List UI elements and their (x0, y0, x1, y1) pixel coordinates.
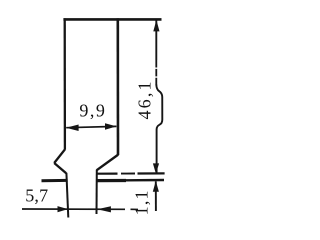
svg-text:46,1: 46,1 (134, 79, 154, 119)
dimension line 5,7 (horizontal at bottom) (22, 208, 125, 210)
dimension line 46,1 (vertical right, with jog) (155, 21, 157, 61)
part outline: left edge of body (64, 18, 67, 150)
arrowhead 9,9 left (points left at body left edge) (66, 125, 79, 132)
arrowhead 5,7 left (points right at stem left edge) (58, 206, 69, 212)
part outline: right edge of body (117, 18, 120, 155)
part outline: top edge with right extension line (63, 18, 161, 21)
part outline: stem right edge (96, 170, 98, 214)
arrowhead 1,1 (points up at sheet bottom) (153, 181, 159, 192)
part outline: right chamfer diagonal (97, 155, 119, 171)
sheet line: left bottom surface (42, 179, 68, 182)
dimension line 1,1 shaft (below sheet) (155, 181, 157, 211)
sheet line: right top surface (98, 173, 118, 175)
dimension line 9,9 (horizontal inside body) (66, 126, 116, 127)
sheet line: right bottom surface (97, 179, 126, 182)
part outline: left barb outward diagonal (54, 149, 65, 163)
part outline: stem left edge (66, 173, 68, 218)
arrowhead 5,7 right (points left at stem right edge) (97, 206, 111, 212)
svg-text:9,9: 9,9 (79, 100, 106, 120)
svg-text:5,7: 5,7 (25, 185, 48, 205)
arrowhead 9,9 right (points right at body right edge) (105, 123, 117, 129)
part outline: left barb inward diagonal (54, 163, 66, 173)
arrowhead 46,1 top (points up at top edge) (153, 20, 159, 32)
svg-text:1,1: 1,1 (132, 189, 152, 215)
arrowhead 46,1 bottom (points down at sheet top) (153, 163, 159, 173)
